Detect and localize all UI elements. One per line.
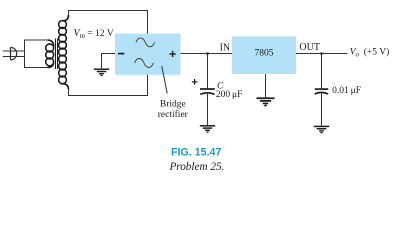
svg-text:Problem 25.: Problem 25. <box>168 161 224 173</box>
svg-text:IN: IN <box>220 42 231 53</box>
svg-text:0.01 μF: 0.01 μF <box>332 86 361 96</box>
svg-text:FIG. 15.47: FIG. 15.47 <box>171 147 222 159</box>
svg-text:rectifier: rectifier <box>158 109 189 120</box>
svg-text:7805: 7805 <box>255 49 274 59</box>
svg-text:Vm = 12 V: Vm = 12 V <box>74 28 114 40</box>
svg-text:Vo (+5 V): Vo (+5 V) <box>350 47 390 59</box>
svg-text:200 μF: 200 μF <box>216 90 243 100</box>
svg-text:OUT: OUT <box>299 42 320 53</box>
svg-text:Bridge: Bridge <box>160 99 186 109</box>
